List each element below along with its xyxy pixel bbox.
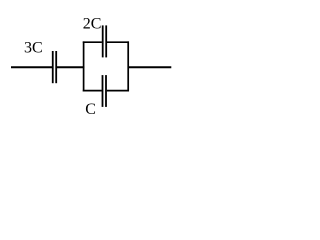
wire right lead: [128, 66, 171, 68]
wire bottom branch left segment: [83, 90, 102, 92]
wire top branch right segment: [107, 41, 129, 43]
wire top branch left segment: [83, 41, 102, 43]
wire left lead: [11, 66, 52, 68]
wire bottom branch right segment: [107, 90, 129, 92]
capacitor 3C: [53, 51, 56, 83]
svg-text:C: C: [85, 101, 96, 118]
svg-text:3C: 3C: [24, 39, 43, 56]
capacitor C: [103, 75, 107, 107]
wire left vertical of loop: [83, 41, 85, 91]
svg-text:2C: 2C: [83, 15, 102, 32]
capacitor 2C: [103, 25, 107, 57]
wire 3C to parallel loop: [57, 66, 85, 68]
wire right vertical of loop: [127, 41, 129, 91]
